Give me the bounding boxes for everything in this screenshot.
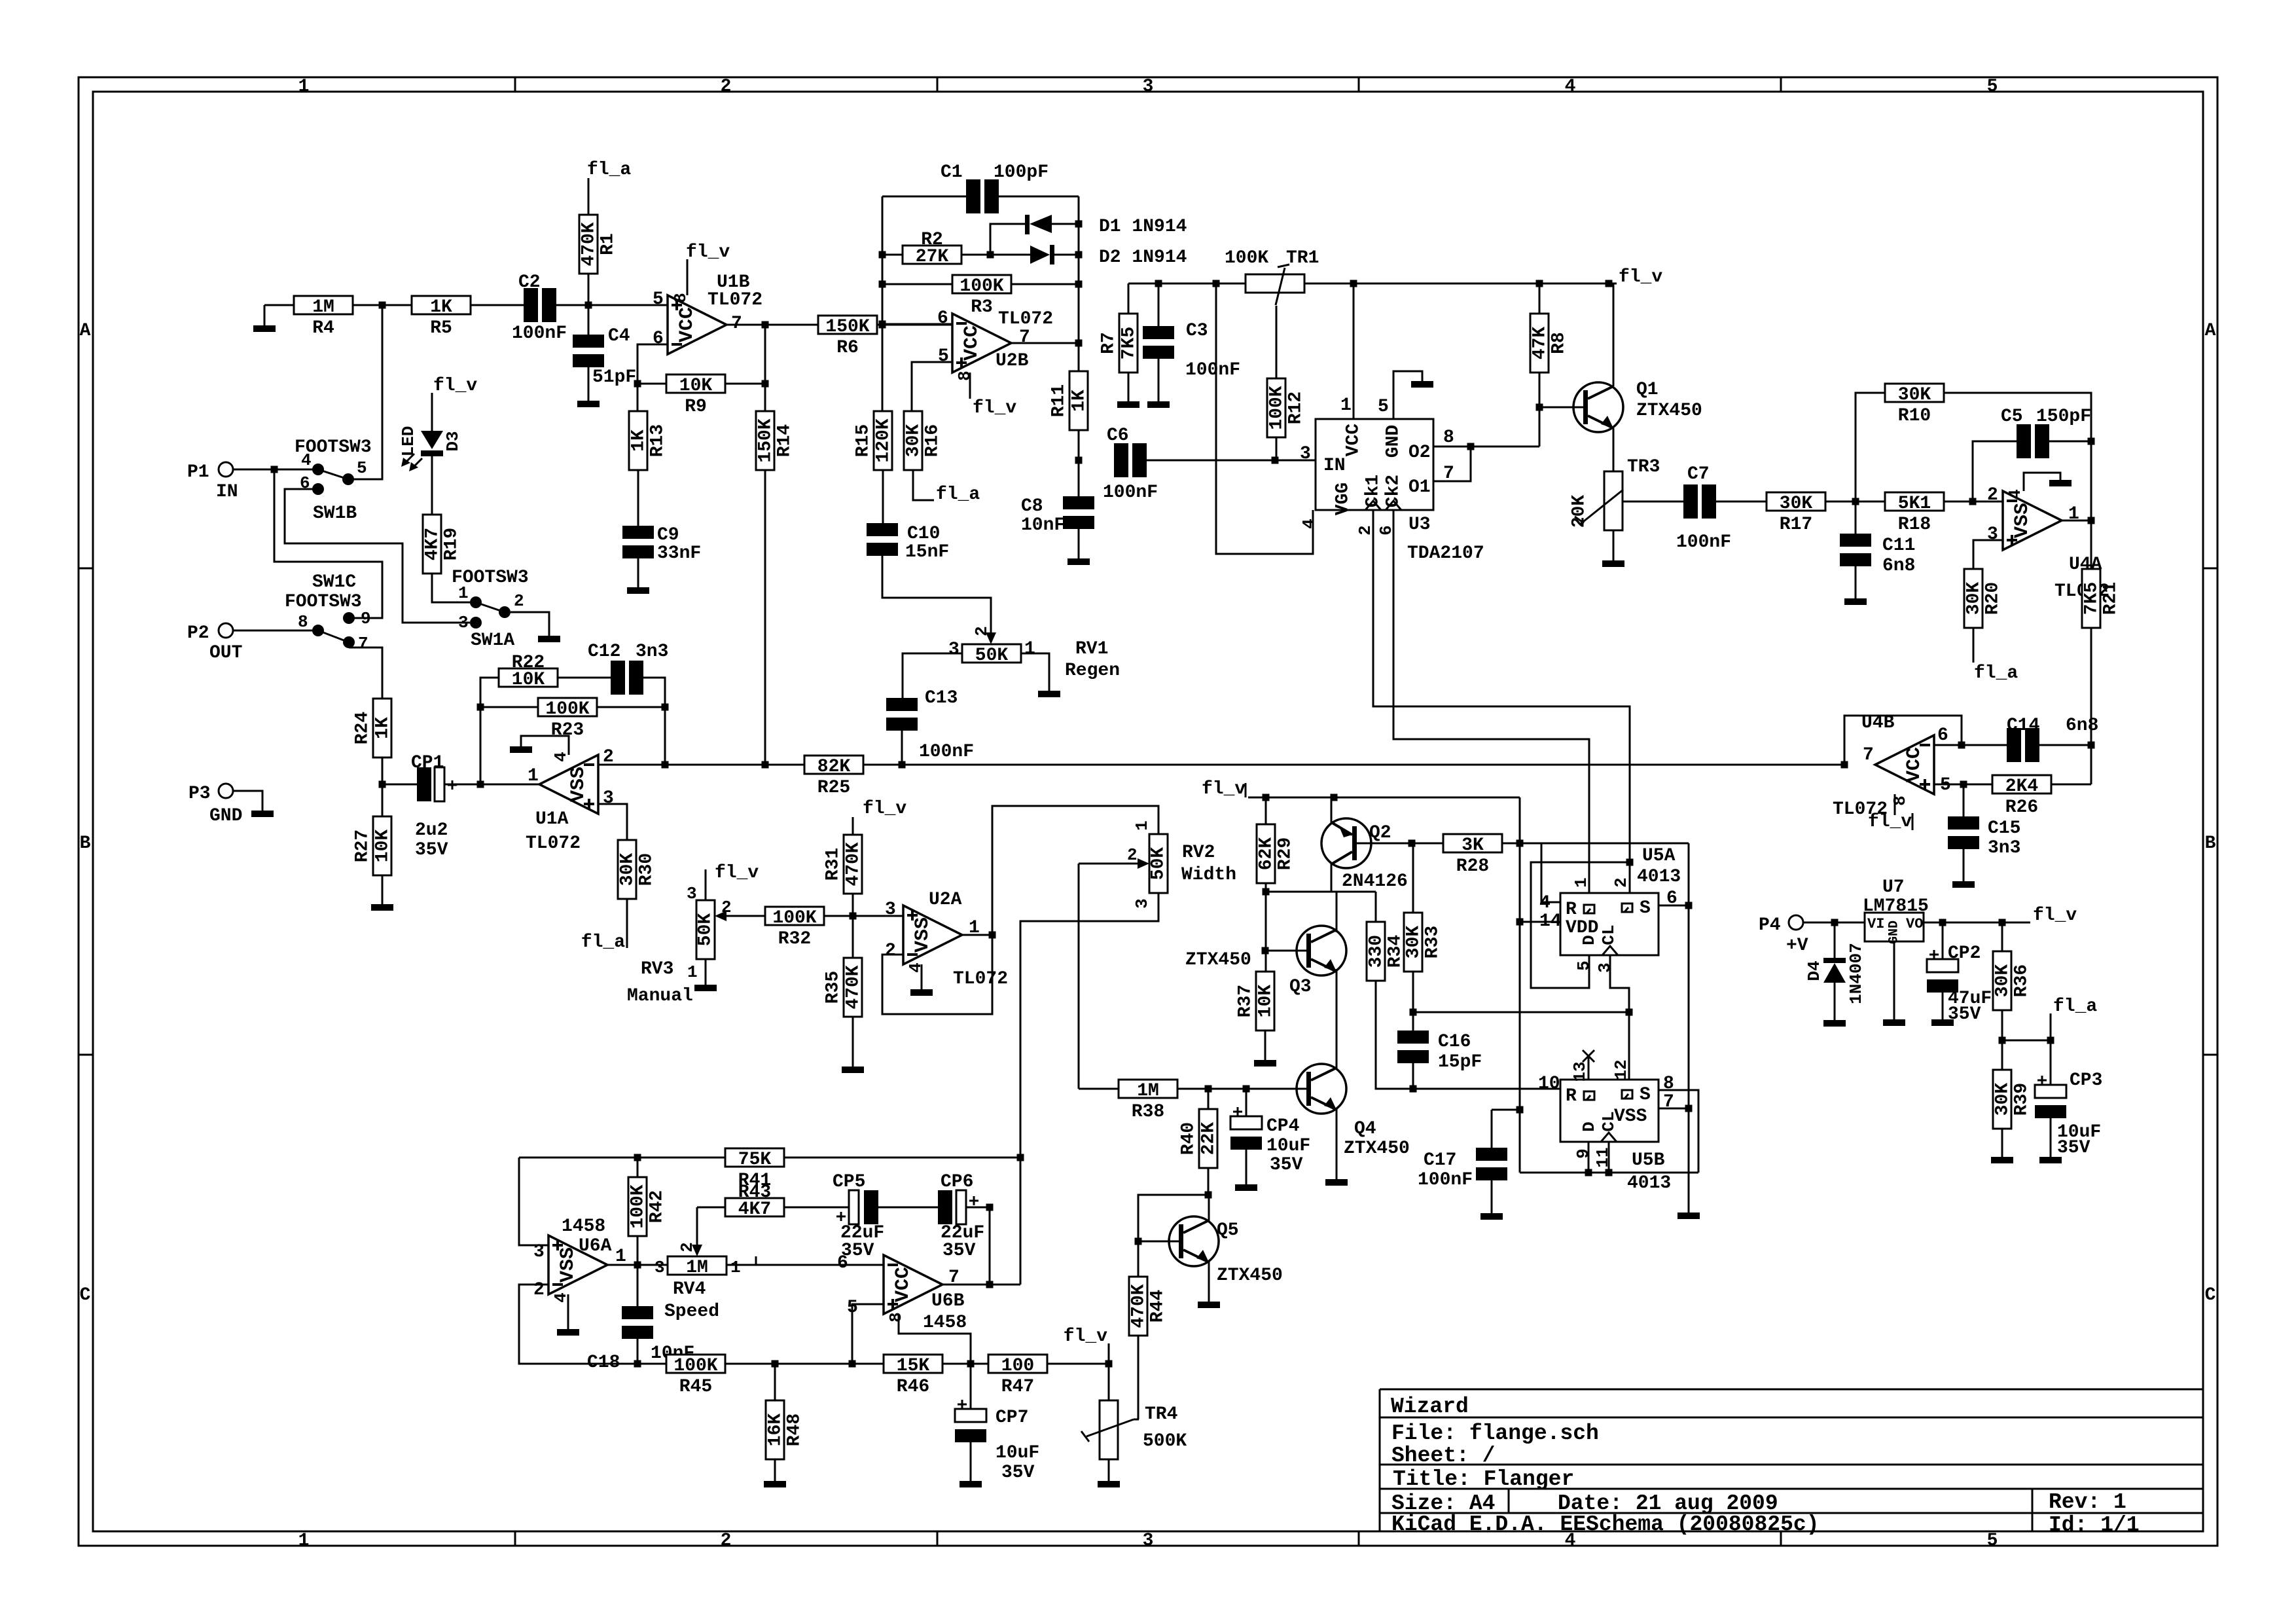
svg-text:GND: GND: [209, 806, 242, 826]
ground: [251, 811, 274, 817]
wire: [1011, 283, 1079, 285]
wire: [471, 304, 524, 306]
svg-text:1K: 1K: [430, 297, 452, 318]
wire main row long: [863, 764, 1844, 766]
svg-text:R21: R21: [2101, 582, 2121, 615]
capacitor CP7: [970, 1364, 972, 1409]
svg-text:GND: GND: [1887, 921, 1902, 944]
wire: [997, 196, 1079, 198]
wire: [1158, 358, 1160, 401]
svg-text:11: 11: [1593, 1147, 1613, 1167]
op-amp U6B: [884, 1255, 942, 1314]
svg-text:fl_v: fl_v: [433, 376, 477, 396]
svg-text:R36: R36: [2012, 964, 2032, 997]
U5A pin 6 S: [1659, 905, 1689, 907]
U5B pin 13 no-connect: [1588, 1056, 1590, 1080]
node junction: [634, 1360, 641, 1368]
svg-text:R37: R37: [1236, 985, 1256, 1017]
resistor R18: [1885, 492, 1944, 511]
svg-text:3K: 3K: [1462, 835, 1484, 856]
wire R42 top: [637, 1158, 639, 1177]
wire R12 top: [1276, 306, 1278, 379]
ground: [1677, 1213, 1700, 1219]
capacitor CP4: [1246, 1089, 1247, 1116]
U3 clock wedge pin2: [1365, 501, 1381, 510]
svg-text:Id: 1/1: Id: 1/1: [2049, 1513, 2140, 1537]
node junction: [1958, 742, 1965, 749]
svg-text:100K: 100K: [1225, 248, 1268, 268]
ground: [1823, 1020, 1846, 1027]
svg-text:1N4007: 1N4007: [1846, 943, 1866, 1004]
wire: [725, 1363, 884, 1365]
wire Q3 base: [1265, 950, 1306, 952]
wire TR3 bottom: [1613, 530, 1615, 560]
node junction: [899, 761, 906, 769]
ground: [538, 636, 560, 642]
potentiometer RV4 wiper arrow: [696, 1207, 698, 1246]
node junction: [849, 1360, 856, 1368]
svg-text:4: 4: [2005, 489, 2025, 500]
svg-text:R: R: [1566, 1086, 1577, 1106]
U3 pin 1 VCC: [1353, 283, 1355, 419]
wire: [637, 558, 639, 587]
wire: [1246, 1149, 1247, 1184]
svg-text:P3: P3: [188, 784, 211, 804]
diode D1: [1025, 215, 1030, 234]
svg-text:R40: R40: [1179, 1122, 1199, 1155]
wire U1A pin3 to R30: [598, 804, 627, 840]
capacitor CP1: [382, 784, 417, 786]
node junction: [762, 321, 769, 329]
IC U3 TDA2107: [1316, 419, 1433, 510]
svg-text:16K: 16K: [766, 1413, 786, 1447]
svg-text:fl_v: fl_v: [1202, 779, 1246, 799]
resistor R25: [804, 756, 863, 774]
label fl_v TR4: [1108, 1343, 1110, 1364]
connector P2: [219, 623, 233, 638]
wire U4A pin3: [1973, 540, 2003, 569]
resistor R32: [765, 907, 824, 925]
svg-text:ZTX450: ZTX450: [1344, 1139, 1410, 1159]
wire R40 node to Q5 base: [1138, 1195, 1208, 1241]
svg-text:1: 1: [298, 1531, 310, 1551]
svg-text:C11: C11: [1882, 536, 1915, 556]
svg-text:U2A: U2A: [929, 890, 962, 910]
svg-text:fl_a: fl_a: [2053, 996, 2097, 1017]
wire U2B pin5: [912, 362, 952, 411]
svg-text:5K1: 5K1: [1898, 494, 1931, 514]
svg-text:3: 3: [885, 900, 896, 920]
U5A pin 2 to U3 Ck1: [1373, 510, 1630, 893]
resistor R8: [1530, 314, 1549, 373]
wire Q2 emitter to rail: [1331, 797, 1333, 824]
ground: [264, 305, 266, 325]
wire U6B output: [942, 1284, 1020, 1286]
wire S loop: [1688, 843, 1690, 905]
svg-text:R4: R4: [312, 318, 334, 338]
switch SW1B: [312, 464, 324, 475]
wire: [1855, 566, 1857, 598]
svg-text:8: 8: [1443, 428, 1454, 448]
svg-text:CP7: CP7: [996, 1408, 1028, 1428]
svg-text:5: 5: [357, 458, 367, 478]
wire: [637, 383, 666, 385]
label fl_v LED: [431, 393, 433, 431]
wire: [966, 1207, 990, 1209]
node junction: [879, 321, 886, 329]
wire main row: [665, 764, 804, 766]
svg-text:R17: R17: [1780, 515, 1812, 535]
svg-text:4: 4: [301, 450, 312, 470]
node junction: [989, 932, 996, 939]
node junction: [1350, 280, 1357, 287]
svg-text:P1: P1: [187, 462, 209, 483]
svg-text:O2: O2: [1408, 443, 1431, 463]
node junction: [879, 281, 886, 288]
svg-text:100K: 100K: [545, 699, 589, 720]
wire R38 left: [1079, 1088, 1119, 1090]
svg-text:470K: 470K: [579, 222, 600, 266]
svg-text:VCC: VCC: [1344, 424, 1364, 457]
switch SW1A: [470, 596, 482, 608]
svg-text:1: 1: [298, 77, 310, 97]
svg-text:100nF: 100nF: [1185, 360, 1240, 380]
wire: [2051, 784, 2091, 786]
node junction: [1075, 457, 1083, 464]
svg-text:Regen: Regen: [1065, 661, 1120, 681]
svg-text:100: 100: [1001, 1356, 1034, 1376]
node junction: [379, 781, 386, 788]
svg-text:2: 2: [533, 1280, 545, 1300]
svg-text:D: D: [1579, 935, 1599, 945]
wire R8 top to rail: [1539, 283, 1541, 314]
svg-text:SW1C: SW1C: [312, 572, 356, 593]
svg-text:fl_v: fl_v: [715, 863, 759, 883]
ground: [960, 1481, 982, 1487]
svg-text:3: 3: [533, 1242, 545, 1262]
svg-text:Title: Flanger: Title: Flanger: [1393, 1467, 1574, 1491]
wire R39 bottom: [2001, 1129, 2003, 1157]
svg-text:C9: C9: [657, 525, 679, 545]
node junction: [1262, 947, 1269, 955]
svg-text:C8: C8: [1021, 496, 1043, 517]
ground: [510, 746, 532, 753]
wire R43 left to RV4 wiper: [697, 1207, 725, 1209]
capacitor C12: [611, 661, 625, 695]
svg-text:10: 10: [1538, 1074, 1560, 1094]
resistor R15: [874, 411, 892, 470]
resistor R9: [666, 374, 725, 393]
svg-text:33nF: 33nF: [657, 543, 701, 564]
svg-text:fl_v: fl_v: [2033, 905, 2077, 926]
wire: [642, 678, 665, 765]
svg-text:30K: 30K: [1898, 385, 1931, 405]
node junction: [762, 380, 769, 388]
wire U4A output: [2062, 520, 2091, 522]
wire: [1502, 843, 1520, 845]
transistor Q5: [1169, 1216, 1219, 1266]
wire: [1047, 1363, 1109, 1365]
wire R22 left: [480, 678, 499, 784]
node junction: [662, 704, 669, 711]
svg-text:22K: 22K: [1199, 1122, 1219, 1156]
svg-text:fl_v: fl_v: [686, 242, 730, 263]
node junction: [2088, 438, 2095, 445]
svg-text:R3: R3: [971, 297, 993, 318]
svg-text:fl_v: fl_v: [863, 799, 906, 819]
svg-text:5: 5: [938, 346, 949, 367]
svg-text:C15: C15: [1988, 818, 2020, 839]
node junction: [762, 761, 769, 769]
potentiometer TR1: [1246, 274, 1304, 293]
node junction: [1243, 1085, 1250, 1093]
node junction: [986, 1281, 994, 1288]
svg-text:3: 3: [1300, 444, 1311, 464]
svg-text:2K4: 2K4: [2005, 776, 2038, 797]
svg-text:30K: 30K: [1993, 964, 2013, 998]
svg-text:150pF: 150pF: [2036, 407, 2091, 427]
wire R27 bottom: [382, 875, 384, 904]
svg-text:35V: 35V: [942, 1241, 976, 1261]
wire R43 right: [784, 1207, 849, 1209]
wire R10 left: [1856, 393, 1885, 501]
svg-text:R43: R43: [738, 1182, 771, 1203]
wire R11 to C6 node: [1078, 430, 1080, 460]
resistor R13: [629, 411, 647, 470]
wire TR3 wiper row: [1623, 501, 1685, 503]
potentiometer TR4: [1100, 1400, 1118, 1459]
wire SW1B pin6 to SW1A pin3: [285, 489, 470, 623]
ground: [1931, 1019, 1954, 1026]
wire R21 bottom to C14 row: [2090, 628, 2092, 784]
wire P2 to SW1C pin8: [233, 630, 313, 632]
ground: [764, 1481, 786, 1487]
capacitor C14: [2007, 728, 2021, 762]
svg-text:A: A: [2205, 321, 2216, 341]
svg-text:C13: C13: [925, 688, 958, 708]
svg-text:fl_v: fl_v: [973, 398, 1016, 418]
wire D4 to ground: [1834, 983, 1836, 1020]
node junction: [1536, 280, 1543, 287]
transistor Q3: [1297, 926, 1346, 976]
svg-text:P2: P2: [187, 623, 209, 644]
wire U7 output: [1924, 922, 2030, 924]
svg-text:10nF: 10nF: [1021, 515, 1065, 536]
svg-text:30K: 30K: [904, 424, 924, 458]
wire RV1 pin3: [903, 653, 962, 699]
resistor R39: [1993, 1070, 2011, 1129]
op-amp U4A: [2003, 491, 2062, 550]
wire RV1 pin1: [1021, 653, 1049, 691]
resistor R10: [1885, 384, 1944, 402]
wire R12 bottom: [1276, 437, 1278, 460]
svg-text:R42: R42: [647, 1190, 668, 1223]
node junction: [2088, 742, 2095, 749]
svg-text:R31: R31: [823, 848, 844, 881]
svg-text:TL072: TL072: [708, 290, 762, 310]
wire: [1412, 843, 1443, 845]
svg-text:OUT: OUT: [209, 643, 242, 663]
node junction: [1105, 1360, 1113, 1368]
wire R23 left: [480, 706, 538, 708]
svg-text:VSS: VSS: [567, 767, 590, 802]
wire: [637, 1338, 639, 1364]
node junction: [1205, 1085, 1212, 1093]
svg-text:File: flange.sch: File: flange.sch: [1391, 1421, 1599, 1446]
wire R14 down to main row: [764, 470, 766, 765]
svg-text:30K: 30K: [618, 853, 638, 886]
capacitor C7: [1683, 484, 1698, 519]
node junctions right bus: [1075, 221, 1083, 228]
wire: [942, 1363, 988, 1365]
svg-text:1: 1: [687, 962, 698, 982]
svg-text:CL: CL: [1599, 1111, 1619, 1131]
transistor Q2 2N4126: [1321, 818, 1371, 868]
node junction: [987, 251, 994, 259]
svg-text:50K: 50K: [696, 913, 716, 947]
svg-text:Q1: Q1: [1636, 380, 1659, 400]
resistor R30: [618, 840, 636, 899]
node junction: [2047, 1037, 2054, 1044]
ground: [1480, 1213, 1503, 1220]
svg-text:R12: R12: [1286, 392, 1306, 424]
wire U6B pin5: [852, 1304, 884, 1364]
svg-text:35V: 35V: [2057, 1138, 2090, 1158]
svg-text:TR1: TR1: [1286, 248, 1319, 268]
svg-text:82K: 82K: [817, 757, 851, 777]
ground: [1883, 1019, 1905, 1026]
node junction: [1263, 794, 1270, 801]
svg-text:C17: C17: [1424, 1150, 1456, 1171]
capacitor C1: [966, 179, 980, 213]
node junction: [634, 1262, 641, 1269]
wire R39 top: [2001, 1040, 2003, 1070]
svg-text:R18: R18: [1898, 515, 1931, 535]
svg-text:KiCad E.D.A. EESchema (2008082: KiCad E.D.A. EESchema (20080825c): [1391, 1512, 1820, 1537]
ground: [1235, 1184, 1257, 1191]
svg-text:50K: 50K: [975, 646, 1009, 666]
ground: [1147, 401, 1170, 408]
op-amp U4B: [1875, 735, 1934, 794]
resistor R23: [538, 698, 597, 716]
wire: [1078, 528, 1080, 558]
wire P1 to SW1B: [233, 469, 313, 471]
svg-text:R34: R34: [1386, 935, 1406, 968]
svg-text:fl_a: fl_a: [936, 484, 980, 505]
capacitor C9: [637, 470, 639, 527]
svg-text:3: 3: [1143, 77, 1154, 97]
wire CP3 bottom: [2050, 1118, 2052, 1157]
op-amp U2B: [952, 314, 1011, 373]
wire P3 to ground: [233, 791, 262, 811]
svg-text:7: 7: [1019, 327, 1030, 348]
wire rail down to U6A pin3: [519, 1158, 548, 1245]
U5B pin 8 S: [1659, 1090, 1698, 1173]
label fl_v U4B power: [1894, 794, 1896, 815]
svg-text:1K: 1K: [1069, 390, 1090, 412]
wire U4B feedback loop: [1844, 716, 1962, 765]
U3 pin 7 O1 wire: [1433, 447, 1471, 481]
svg-text:Ck1: Ck1: [1363, 475, 1384, 507]
svg-text:1: 1: [730, 1258, 741, 1277]
svg-text:10uF: 10uF: [1266, 1136, 1310, 1156]
wire P1 node down to SW1C pin9: [274, 469, 382, 618]
svg-text:Q5: Q5: [1217, 1220, 1239, 1241]
svg-text:100K: 100K: [628, 1184, 649, 1228]
svg-text:fl_a: fl_a: [1974, 663, 2018, 684]
wire R7 top to rail: [1128, 283, 1130, 314]
svg-text:TR4: TR4: [1145, 1404, 1177, 1425]
potentiometer TR1 wiper: [1276, 268, 1285, 305]
svg-text:SW1A: SW1A: [471, 630, 514, 651]
svg-text:R39: R39: [2012, 1083, 2032, 1116]
svg-text:U7: U7: [1882, 877, 1905, 898]
node junction: [1331, 794, 1338, 801]
node junction: [1585, 1169, 1592, 1176]
node junction: [1605, 1169, 1613, 1176]
wire R37 bottom: [1265, 1030, 1266, 1060]
svg-text:3: 3: [1595, 962, 1615, 973]
wire R28 node to R and S: [1520, 843, 1689, 845]
svg-text:R22: R22: [512, 653, 545, 673]
svg-text:B: B: [80, 833, 91, 854]
svg-text:C: C: [80, 1285, 91, 1305]
wire LED to R19: [431, 456, 433, 515]
node junction: [1410, 1009, 1417, 1016]
capacitor C5: [2017, 424, 2031, 458]
svg-text:4K7: 4K7: [423, 528, 443, 560]
svg-text:14: 14: [1539, 911, 1562, 932]
svg-text:470K: 470K: [1129, 1284, 1149, 1328]
wire R23 right: [597, 706, 665, 708]
svg-text:100K: 100K: [772, 908, 816, 928]
svg-text:3: 3: [655, 1258, 665, 1277]
wire R36 bottom: [2001, 1010, 2003, 1040]
svg-text:U5A: U5A: [1642, 846, 1676, 866]
svg-text:R8: R8: [1549, 332, 1570, 354]
ground: [1325, 1179, 1348, 1186]
wire R38 right to Q4 base: [1177, 1088, 1306, 1090]
potentiometer TR3: [1604, 471, 1623, 530]
svg-text:2: 2: [721, 1531, 732, 1551]
svg-text:VSS: VSS: [2011, 503, 2034, 538]
wire: [1825, 501, 1885, 503]
svg-text:8: 8: [298, 612, 308, 632]
svg-text:VCC: VCC: [676, 307, 698, 342]
svg-text:ZTX450: ZTX450: [1636, 401, 1702, 421]
label fl_v R31: [852, 817, 854, 835]
capacitor C11: [1855, 501, 1857, 535]
U6A power stub: [567, 1294, 569, 1329]
svg-text:Width: Width: [1181, 865, 1236, 885]
resistor R33: [1404, 913, 1422, 972]
svg-text:100pF: 100pF: [994, 162, 1049, 183]
label fl_a R30: [626, 899, 628, 948]
U3 pin 8 O2 wire: [1433, 446, 1539, 448]
resistor R3: [952, 275, 1011, 293]
wire R24 bottom: [382, 757, 384, 816]
potentiometer RV2: [1149, 834, 1168, 893]
resistor R38: [1119, 1080, 1177, 1098]
svg-text:20K: 20K: [1570, 495, 1590, 528]
ground: [1602, 560, 1624, 567]
svg-text:8: 8: [1663, 1074, 1674, 1094]
ground: [1117, 401, 1139, 408]
svg-text:120K: 120K: [874, 418, 894, 462]
svg-text:C10: C10: [907, 524, 940, 544]
svg-text:R13: R13: [648, 424, 668, 457]
resistor R5: [412, 296, 471, 314]
